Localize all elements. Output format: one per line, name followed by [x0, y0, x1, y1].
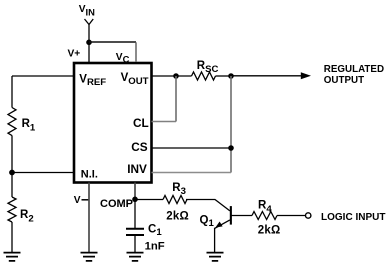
- wire node A to R2: [11, 173, 13, 198]
- wire R1 to node A: [11, 136, 13, 173]
- wire R2 to ground: [11, 222, 13, 253]
- wire CL loop vertical: [175, 76, 177, 122]
- wire VC loop vertical: [135, 42, 137, 62]
- svg-text:V: V: [74, 195, 81, 206]
- wire Q1 base to R4: [231, 215, 252, 217]
- resistor R1: [8, 108, 16, 136]
- wire node A to N.I. pin: [12, 172, 74, 174]
- junction VIN node dot: [86, 40, 92, 46]
- svg-text:2kΩ: 2kΩ: [258, 224, 281, 236]
- wire VIN stem to V+ pin: [88, 25, 90, 63]
- wire CL loop horizontal to CL pin: [152, 121, 177, 123]
- svg-text:N.I.: N.I.: [81, 168, 98, 180]
- node LOGIC INPUT open terminal: [306, 213, 311, 218]
- ground (Q1): [207, 253, 224, 261]
- wire COMP pin to COMP node: [134, 183, 136, 200]
- ground (V-): [81, 253, 98, 261]
- svg-text:INV: INV: [127, 162, 147, 176]
- svg-text:CS: CS: [131, 140, 148, 154]
- wire V- pin to ground: [88, 183, 90, 253]
- resistor RSC: [192, 72, 216, 80]
- junction VOUT node dot: [173, 73, 179, 79]
- junction COMP node dot: [132, 197, 138, 203]
- wire output node vertical to INV: [230, 76, 232, 173]
- svg-text:1nF: 1nF: [145, 240, 165, 252]
- wire R4 to logic input terminal: [277, 215, 305, 217]
- ground (R2): [4, 253, 21, 261]
- wire VC loop horizontal: [89, 41, 136, 43]
- svg-text:2kΩ: 2kΩ: [166, 211, 189, 223]
- svg-text:REGULATED: REGULATED: [324, 64, 384, 75]
- wire COMP node to R3: [135, 199, 163, 201]
- svg-text:LOGIC INPUT: LOGIC INPUT: [321, 212, 385, 223]
- wire R3 to Q1 collector: [186, 200, 230, 211]
- wire C1 to ground: [134, 236, 136, 253]
- wire VREF to left rail: [12, 75, 74, 77]
- capacitor C1: [126, 229, 144, 235]
- svg-text:COMP: COMP: [100, 198, 133, 210]
- wire Q1 emitter to ground: [214, 228, 216, 253]
- resistor R3: [163, 196, 187, 204]
- resistor R2: [8, 197, 16, 222]
- svg-text:VC: VC: [116, 52, 130, 65]
- junction node A dot (R1/R2/N.I.): [9, 170, 15, 176]
- wire RSC to output node: [216, 75, 232, 77]
- node VIN input terminal Y: [85, 19, 94, 25]
- resistor R4: [252, 212, 277, 220]
- wire INV pin to output vertical: [152, 172, 232, 174]
- junction output node dot: [228, 73, 234, 79]
- IC U1 regulator box: [74, 63, 152, 183]
- svg-text:V+: V+: [68, 49, 81, 60]
- ground (C1): [127, 253, 144, 261]
- wire output arrow to REGULATED OUTPUT: [231, 75, 302, 77]
- transistor Q1 base bar: [230, 206, 232, 225]
- wire COMP node to C1: [134, 199, 136, 228]
- wire left rail upper to R1: [11, 76, 13, 108]
- wire VOUT pin to RSC: [152, 75, 192, 77]
- transistor Q1 emitter with arrow: [215, 220, 230, 229]
- junction CS node dot: [228, 145, 234, 151]
- svg-text:OUTPUT: OUTPUT: [324, 75, 364, 86]
- svg-text:CL: CL: [133, 116, 149, 130]
- wire CS pin to output vertical: [152, 147, 232, 149]
